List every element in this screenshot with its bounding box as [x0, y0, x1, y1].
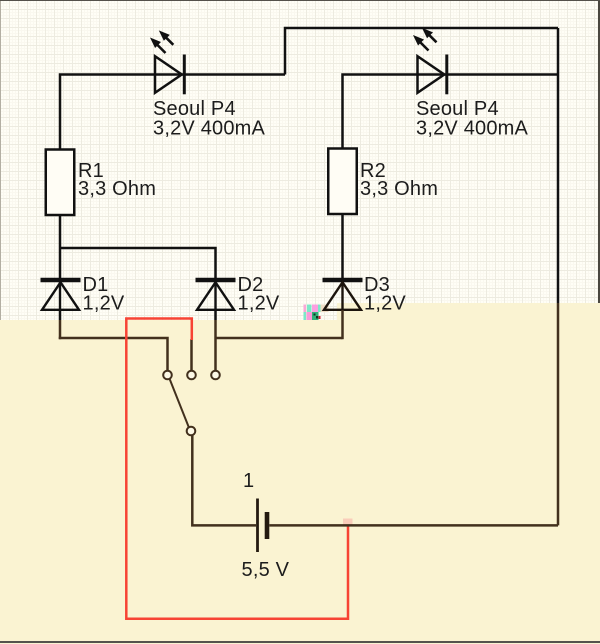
svg-text:3,3 Ohm: 3,3 Ohm: [78, 178, 156, 200]
label: D2 / 1,2V: [238, 274, 280, 315]
wire: D2 anode drop to switch contact 3: [214, 310, 217, 371]
svg-text:1,2V: 1,2V: [83, 292, 125, 314]
svg-text:1,2V: 1,2V: [238, 292, 280, 314]
wire: top bus from LED1 cathode corner to right rail: [285, 28, 558, 75]
diode D1: [41, 280, 81, 310]
wire: switch pole down and to battery left plate: [192, 435, 256, 525]
switch lever: [170, 379, 189, 427]
wire: bus right segment from D2 column to D3 column: [216, 337, 343, 340]
label: R1 / 3,3 Ohm: [78, 160, 156, 200]
resistor R1: [46, 150, 75, 216]
wire: contact 2 drop (brown part under red): [190, 339, 193, 371]
diode D3: [323, 280, 363, 310]
switch contact 1: [163, 371, 172, 380]
wire: battery right plate to right rail: [269, 524, 558, 527]
wire: R2 bottom down to D3 top: [341, 214, 344, 278]
label: D1 / 1,2V: [83, 274, 125, 315]
wire: R1 bottom down to D1 top: [59, 215, 62, 278]
wire: bus left segment to switch contact 1: [59, 338, 168, 371]
wire: right rail lower (brown): [557, 303, 560, 525]
wire: branch from node below R1 to D2 top: [60, 248, 216, 278]
svg-text:3,3 Ohm: 3,3 Ohm: [360, 178, 438, 200]
label: Seoul P4 / 3,2V 400mA (LED U1): [153, 98, 266, 140]
resistor R2: [328, 149, 357, 215]
label: Seoul P4 / 3,2V 400mA (LED U2): [416, 98, 529, 140]
battery B1: short plate: [265, 512, 270, 539]
label: D3 / 1,2V: [364, 274, 406, 315]
LED U1 (Seoul P4): [151, 31, 184, 94]
watermark artifact: [304, 305, 329, 321]
wire: D3 anode drop to bus: [341, 310, 344, 339]
wire: LED1 row, R1 top corner to corner x285: [60, 75, 285, 150]
red wire overshoot smudge at battery joint: [343, 519, 353, 525]
red wire: bypass loop from contact 2 around to battery + side: [126, 319, 348, 619]
svg-text:Seoul P4: Seoul P4: [416, 98, 499, 120]
switch contact 3: [211, 371, 220, 380]
battery B1: long plate: [256, 499, 259, 553]
diode D2: [196, 280, 236, 310]
switch contact 2: [187, 371, 196, 380]
svg-text:1,2V: 1,2V: [364, 292, 406, 314]
svg-text:Seoul P4: Seoul P4: [153, 98, 236, 120]
wire: right rail upper (black): [557, 28, 560, 303]
svg-text:3,2V 400mA: 3,2V 400mA: [416, 118, 529, 140]
switch pole: [187, 427, 196, 436]
svg-text:3,2V 400mA: 3,2V 400mA: [153, 118, 266, 140]
svg-text:5,5 V: 5,5 V: [242, 559, 290, 581]
LED U2 (Seoul P4): [414, 29, 447, 95]
wire: LED2 row, R2 top corner to right rail: [343, 75, 559, 149]
label: R2 / 3,3 Ohm: [360, 160, 438, 200]
svg-text:1: 1: [243, 470, 254, 492]
wire: D1 anode drop to bus: [59, 310, 62, 339]
